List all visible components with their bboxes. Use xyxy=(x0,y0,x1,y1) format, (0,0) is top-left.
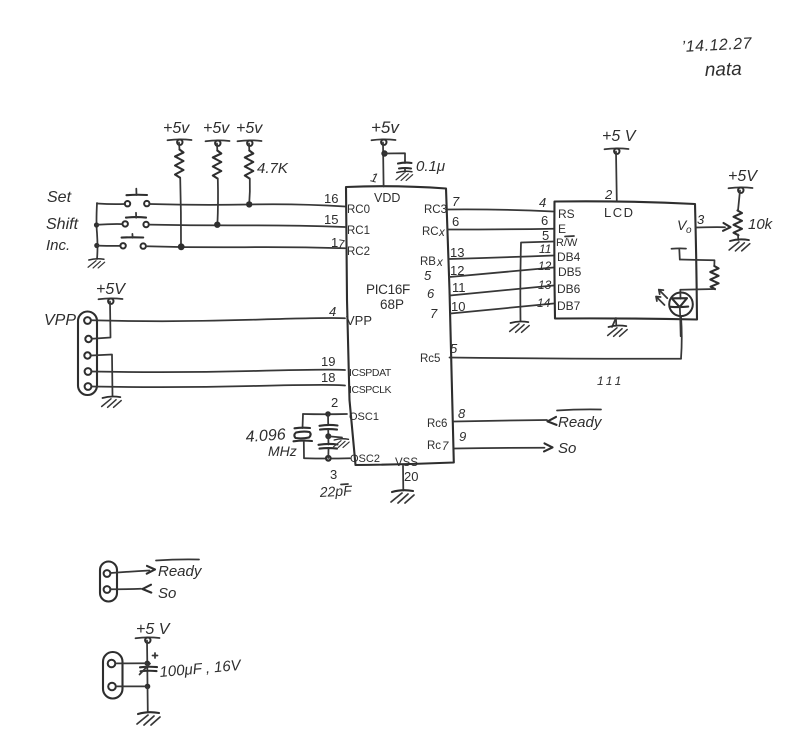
svg-text:o: o xyxy=(686,225,692,236)
svg-text:x: x xyxy=(438,227,446,239)
svg-text:16: 16 xyxy=(324,191,338,206)
svg-text:7: 7 xyxy=(452,194,460,209)
svg-text:11: 11 xyxy=(539,242,551,256)
svg-text:RC1: RC1 xyxy=(347,225,370,237)
svg-text:ICSPDAT: ICSPDAT xyxy=(349,367,392,379)
svg-text:DB7: DB7 xyxy=(557,299,581,313)
svg-text:RC3: RC3 xyxy=(424,204,447,216)
svg-text:68P: 68P xyxy=(380,297,404,312)
svg-text:3: 3 xyxy=(697,212,705,227)
svg-text:19: 19 xyxy=(321,354,335,369)
svg-text:22pF: 22pF xyxy=(318,482,353,500)
svg-text:13: 13 xyxy=(538,278,552,292)
svg-text:ICSPCLK: ICSPCLK xyxy=(349,384,392,396)
svg-text:R/W: R/W xyxy=(556,237,578,249)
svg-text:5: 5 xyxy=(542,228,549,243)
svg-text:RC2: RC2 xyxy=(347,246,370,258)
svg-text:DB5: DB5 xyxy=(558,265,582,279)
svg-text:18: 18 xyxy=(321,370,335,385)
svg-text:3: 3 xyxy=(330,467,337,482)
svg-text:RS: RS xyxy=(558,207,575,221)
svg-text:6: 6 xyxy=(541,213,548,228)
svg-text:Inc.: Inc. xyxy=(46,237,70,254)
svg-text:RC0: RC0 xyxy=(347,204,370,216)
svg-text:5: 5 xyxy=(424,268,432,283)
svg-text:+5v: +5v xyxy=(163,120,190,137)
svg-text:Rc5: Rc5 xyxy=(420,353,440,365)
svg-text:111: 111 xyxy=(597,374,624,388)
svg-text:20: 20 xyxy=(404,469,418,484)
svg-text:nata: nata xyxy=(704,59,742,81)
svg-text:So: So xyxy=(558,440,576,457)
svg-text:+5V: +5V xyxy=(96,281,126,298)
svg-text:So: So xyxy=(158,585,176,602)
svg-text:12: 12 xyxy=(538,259,552,273)
svg-text:1: 1 xyxy=(369,169,380,185)
svg-text:VPP: VPP xyxy=(346,313,372,328)
svg-text:Ready: Ready xyxy=(558,414,603,431)
svg-text:4: 4 xyxy=(329,304,336,319)
svg-text:+5v: +5v xyxy=(236,120,263,137)
svg-text:+5v: +5v xyxy=(371,118,400,137)
svg-text:x: x xyxy=(436,257,444,269)
svg-text:6: 6 xyxy=(452,214,459,229)
svg-text:+5 V: +5 V xyxy=(602,128,637,145)
svg-text:0.1μ: 0.1μ xyxy=(416,158,445,175)
svg-text:+5V: +5V xyxy=(728,168,758,185)
svg-text:7: 7 xyxy=(442,441,449,453)
svg-text:Ready: Ready xyxy=(158,563,203,580)
svg-text:RB: RB xyxy=(420,256,436,268)
svg-text:Set: Set xyxy=(47,189,72,206)
svg-text:10k: 10k xyxy=(748,216,774,233)
svg-text:VPP: VPP xyxy=(44,312,76,329)
svg-text:100μF , 16V: 100μF , 16V xyxy=(159,657,243,681)
svg-text:VSS: VSS xyxy=(395,457,418,469)
svg-text:LCD: LCD xyxy=(604,205,635,220)
svg-text:14: 14 xyxy=(537,296,551,310)
svg-text:7: 7 xyxy=(337,237,346,252)
svg-text:OSC2: OSC2 xyxy=(350,453,380,465)
svg-text:5: 5 xyxy=(450,341,458,356)
svg-text:9: 9 xyxy=(459,429,466,444)
svg-text:Rc: Rc xyxy=(427,440,441,452)
svg-text:7: 7 xyxy=(430,306,438,321)
svg-text:+5v: +5v xyxy=(203,120,230,137)
svg-text:E: E xyxy=(558,222,566,236)
svg-text:RC: RC xyxy=(422,226,439,238)
svg-text:2: 2 xyxy=(331,395,338,410)
svg-text:PIC16F: PIC16F xyxy=(366,282,410,297)
svg-text:Shift: Shift xyxy=(46,216,79,233)
svg-text:DB4: DB4 xyxy=(557,250,581,264)
svg-text:MHz: MHz xyxy=(268,443,297,459)
svg-text:15: 15 xyxy=(324,212,338,227)
svg-text:DB6: DB6 xyxy=(557,282,581,296)
svg-text:4: 4 xyxy=(539,195,546,210)
svg-text:+5 V: +5 V xyxy=(136,621,171,638)
svg-text:6: 6 xyxy=(427,286,435,301)
svg-text:11: 11 xyxy=(452,280,466,295)
svg-text:’14.12.27: ’14.12.27 xyxy=(681,35,753,56)
svg-text:VDD: VDD xyxy=(374,191,400,205)
svg-text:2: 2 xyxy=(604,187,613,202)
svg-text:8: 8 xyxy=(458,406,466,421)
svg-text:Rc6: Rc6 xyxy=(427,418,447,430)
svg-text:OSC1: OSC1 xyxy=(349,411,379,423)
svg-text:4.7K: 4.7K xyxy=(257,160,289,177)
